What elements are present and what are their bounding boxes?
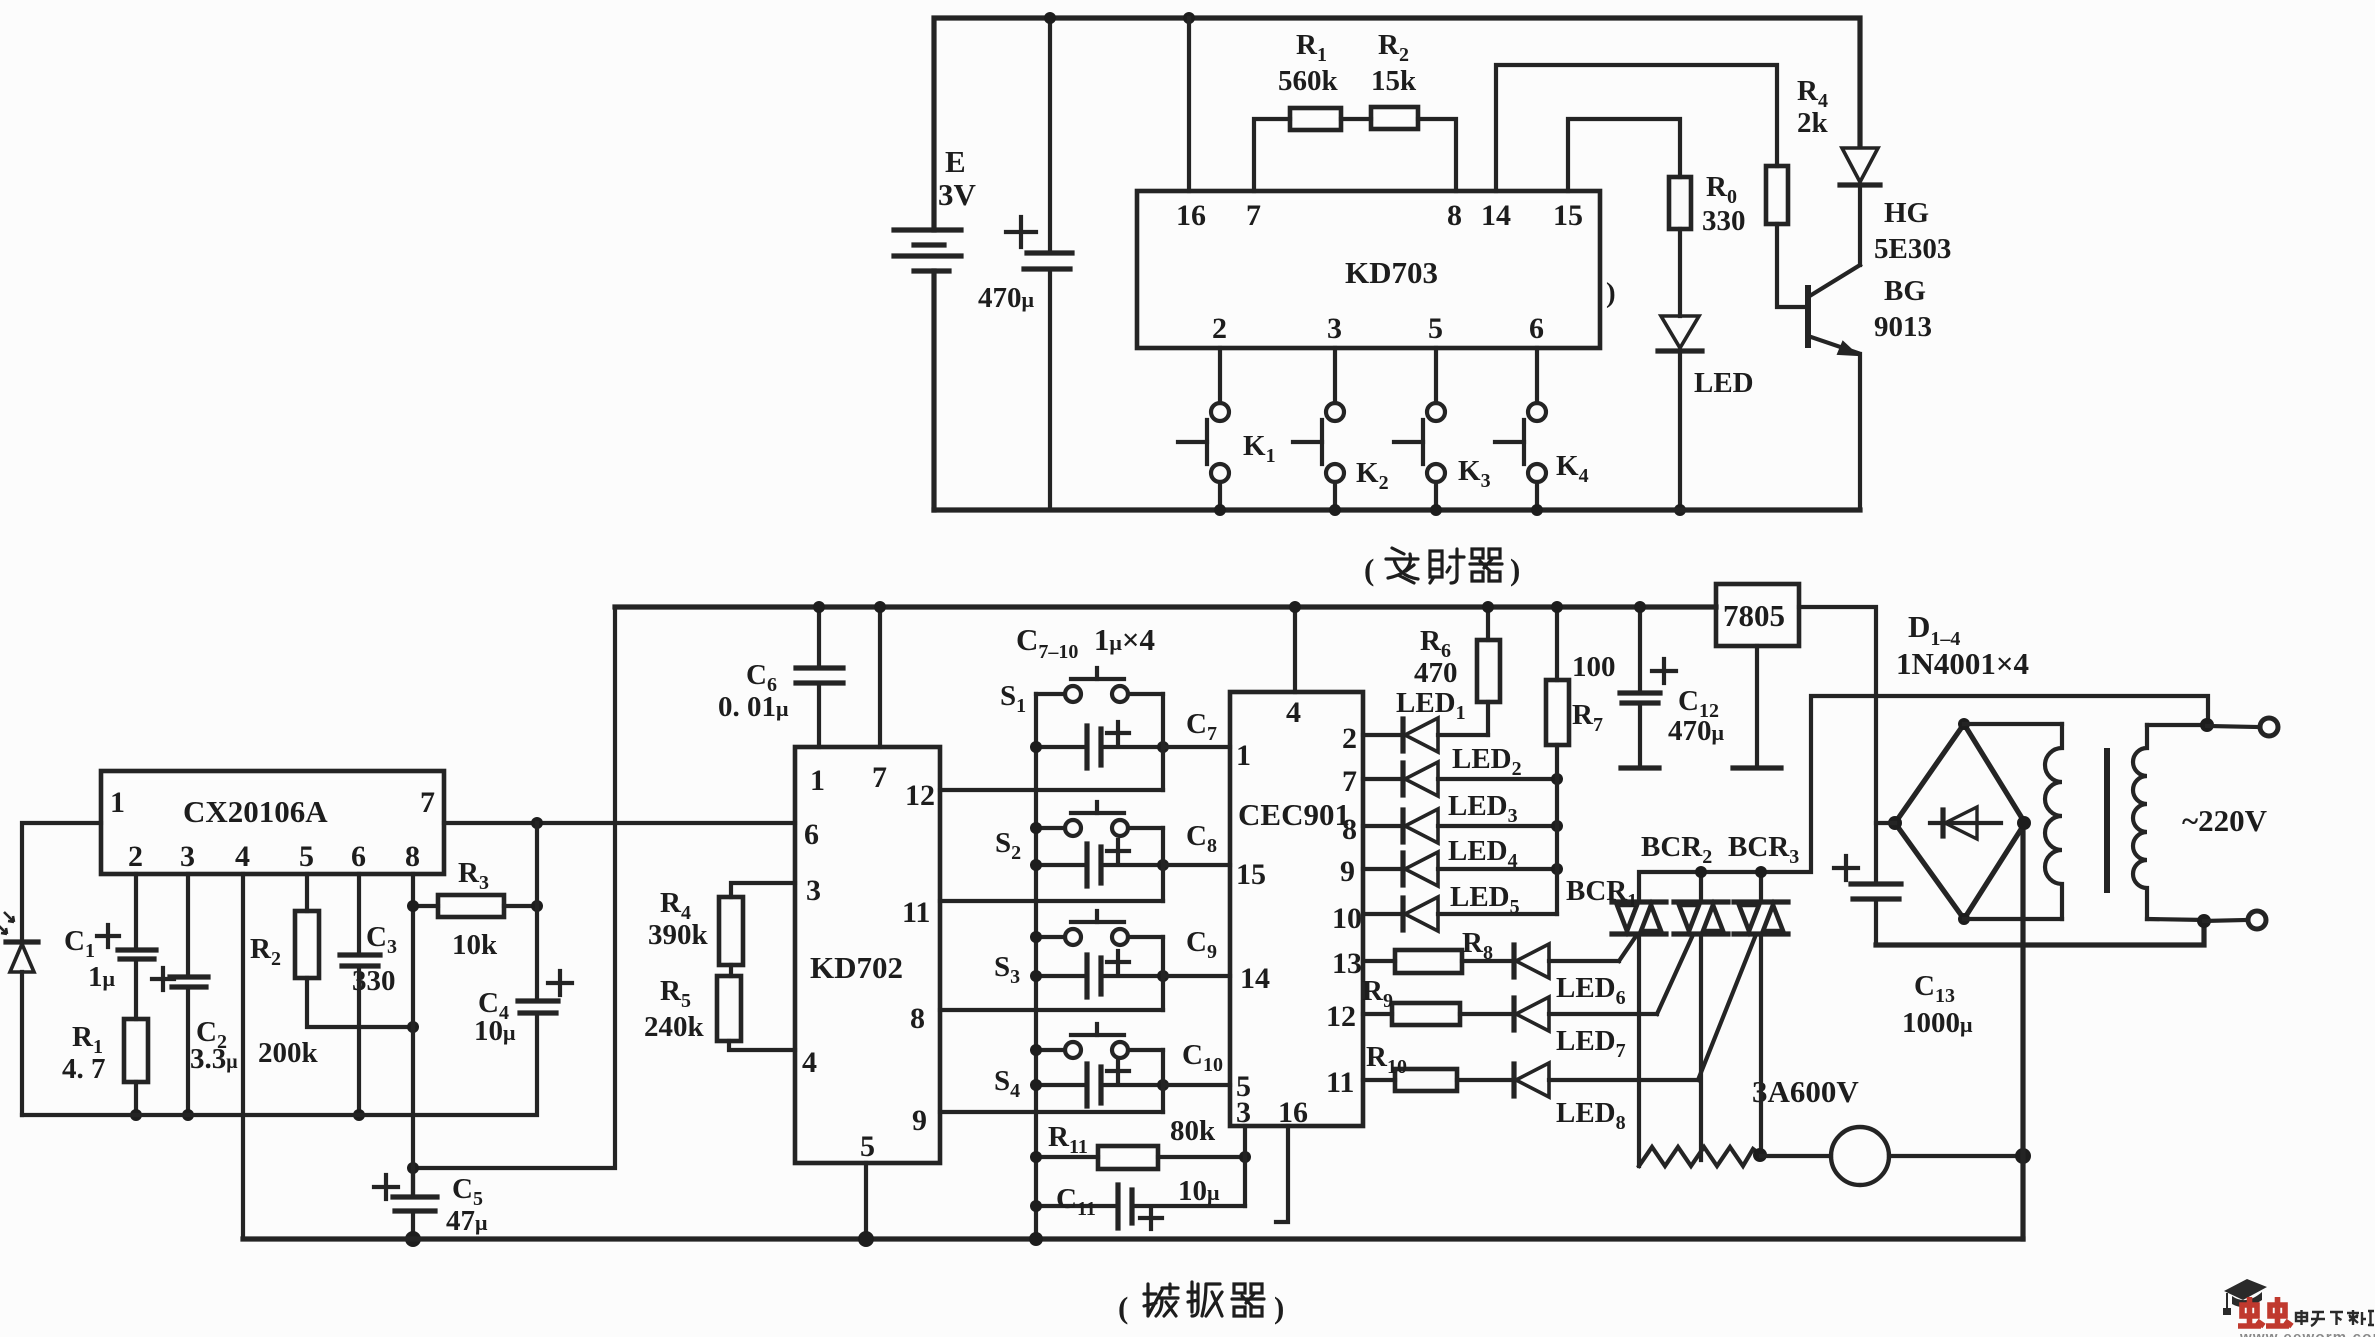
wire pin7 to KD702 pin6 <box>444 821 795 825</box>
node BCR3 top <box>1755 866 1767 878</box>
svg-text:10μ: 10μ <box>474 1015 516 1047</box>
svg-text:6: 6 <box>1529 312 1544 345</box>
diode LED4 <box>1363 835 1557 886</box>
node R11 right <box>1239 1151 1251 1163</box>
svg-text:470μ: 470μ <box>1668 715 1725 747</box>
wire KD702 pin7 up <box>878 607 882 747</box>
wire pin1 to photodiode <box>22 823 101 942</box>
node bridge top vertex <box>1958 718 1970 730</box>
wire KD702 pin5 down <box>864 1163 868 1238</box>
resistor R4 2k <box>1766 75 1829 224</box>
svg-text:9013: 9013 <box>1874 311 1932 343</box>
wire R5 to pin4 <box>729 1041 795 1050</box>
IC U4 CEC901 <box>1230 692 1363 1129</box>
resistor R2 15k <box>1371 29 1418 129</box>
svg-text:15: 15 <box>1553 199 1583 232</box>
svg-text:7: 7 <box>872 761 887 794</box>
resistor R8 <box>1363 927 1514 973</box>
wire to bottom AC terminal <box>2204 920 2246 921</box>
capacitor C6 0.01u <box>718 607 843 747</box>
capacitor C10 1u <box>1036 1039 1223 1106</box>
diode LED (transmitter indicator) <box>1658 316 1754 399</box>
svg-text:E: E <box>945 144 966 179</box>
wire emitter to bottom rail <box>1858 354 1862 510</box>
wire left vertical bus <box>413 607 615 1168</box>
svg-text:240k: 240k <box>644 1011 705 1043</box>
node bridge bottom vertex <box>1958 913 1970 925</box>
svg-text:12: 12 <box>905 779 935 812</box>
node pin7 branch <box>531 817 543 829</box>
watermark chongchong red characters <box>2238 1297 2292 1326</box>
transistor Q1 BG9013 <box>1808 265 1932 355</box>
svg-text:4. 7: 4. 7 <box>62 1053 106 1085</box>
node C11 left <box>1030 1200 1042 1212</box>
node K2 bottom <box>1329 504 1341 516</box>
svg-text:LED7: LED7 <box>1556 1025 1626 1062</box>
watermark text dianzi xiazaizhan <box>2296 1310 2374 1326</box>
svg-text:15k: 15k <box>1371 65 1417 97</box>
wire triac common top <box>1639 696 2208 902</box>
photodiode IR receiver <box>0 912 38 1115</box>
svg-text:560k: 560k <box>1278 65 1339 97</box>
wire secondary bottom to terminal <box>2147 919 2204 920</box>
wire S3 right node vertical <box>1161 937 1165 1010</box>
svg-text:LED2: LED2 <box>1452 743 1522 780</box>
node C9 left <box>1030 970 1042 982</box>
svg-text:www.eeworm.com: www.eeworm.com <box>2239 1329 2375 1337</box>
node C10 right <box>1157 1079 1169 1091</box>
svg-text:): ) <box>1510 552 1520 587</box>
wire BCR1 bottom to heater <box>1637 934 1641 1166</box>
bridge rectifier D1-4 diamond <box>1895 724 2025 919</box>
resistor R6 470 <box>1414 607 1500 735</box>
wire CEC901 pin4 up <box>1293 607 1297 692</box>
wire C9 to CEC901 <box>1163 974 1230 978</box>
capacitor C9 1u <box>1036 926 1217 997</box>
capacitor C12 470u <box>1620 607 1725 768</box>
node bridge left vertex <box>1888 816 1902 830</box>
wire LED to bottom rail <box>1678 351 1682 510</box>
svg-text:5E303: 5E303 <box>1874 233 1951 265</box>
regulator 7805 <box>1716 584 1799 768</box>
svg-text:1000μ: 1000μ <box>1902 1007 1973 1039</box>
node R2 to pin8 wire <box>407 1021 419 1033</box>
node pin5 bottom <box>858 1231 874 1247</box>
node C7 right <box>1157 741 1169 753</box>
svg-text:BCR3: BCR3 <box>1728 831 1799 868</box>
IC U2 CX20106A <box>101 771 444 874</box>
svg-text:200k: 200k <box>258 1037 319 1069</box>
svg-text:2: 2 <box>1212 312 1227 345</box>
wire main bottom rail <box>243 1236 2023 1241</box>
wire bridge top to primary <box>1964 722 2062 726</box>
node BCR2 top <box>1695 866 1707 878</box>
svg-text:(: ( <box>1364 552 1374 587</box>
svg-text:): ) <box>1274 1290 1284 1325</box>
node C7 left <box>1030 741 1042 753</box>
svg-text:11: 11 <box>902 896 930 929</box>
wire to top AC terminal <box>2207 726 2258 727</box>
wire pin8 vertical <box>411 874 415 1197</box>
node C9 right <box>1157 970 1169 982</box>
node S3 left <box>1030 931 1042 943</box>
svg-text:LED5: LED5 <box>1450 881 1520 918</box>
svg-text:5: 5 <box>299 840 314 873</box>
svg-text:C7–10 1μ×4: C7–10 1μ×4 <box>1016 622 1155 663</box>
wire C8 to CEC901 <box>1163 863 1230 867</box>
node C10 left <box>1030 1079 1042 1091</box>
svg-text:KD703: KD703 <box>1345 255 1438 290</box>
svg-text:8: 8 <box>1342 813 1357 846</box>
svg-text:): ) <box>1606 277 1616 309</box>
node LED2 to R7 bus <box>1551 773 1563 785</box>
capacitor C1 1u <box>64 874 156 1019</box>
switch K1 <box>1178 348 1276 510</box>
wire CEC901 pin3 vertical <box>1243 1126 1247 1206</box>
wire pin 15 to R0 <box>1568 119 1680 191</box>
wire C13 bottom run to AC terminal <box>1876 922 2204 945</box>
capacitor C5 47u <box>374 1168 488 1238</box>
node C3 to rail <box>353 1109 365 1121</box>
wire C10 to CEC901 <box>1163 1083 1230 1087</box>
resistor R5 240k <box>644 975 741 1043</box>
wire motor to neutral bus <box>1889 1154 2023 1158</box>
IC U3 KD702 <box>795 747 940 1163</box>
svg-text:1μ: 1μ <box>88 961 116 993</box>
svg-text:8: 8 <box>910 1002 925 1035</box>
node R1 to rail <box>130 1109 142 1121</box>
svg-text:5: 5 <box>860 1130 875 1163</box>
diode LED8 <box>1514 937 1755 1134</box>
svg-text:16: 16 <box>1278 1096 1308 1129</box>
node S2 left <box>1030 822 1042 834</box>
node pin7 top <box>874 601 886 613</box>
svg-text:13: 13 <box>1332 947 1362 980</box>
svg-text:470μ: 470μ <box>978 282 1035 314</box>
svg-text:14: 14 <box>1240 962 1270 995</box>
diode LED5 <box>1363 881 1557 931</box>
svg-text:330: 330 <box>1702 205 1746 237</box>
node AC terminal top junction <box>2200 718 2214 732</box>
resistor R0 330 <box>1669 171 1746 237</box>
wire R4-R5 link <box>729 965 733 976</box>
svg-text:7: 7 <box>420 786 435 819</box>
svg-text:3: 3 <box>1327 312 1342 345</box>
svg-text:3: 3 <box>1236 1096 1251 1129</box>
heater element zigzag <box>1639 1147 1761 1166</box>
resistor R10 <box>1363 1041 1514 1091</box>
svg-text:0. 01μ: 0. 01μ <box>718 691 789 723</box>
wire pin7 branch vertical to C4 <box>535 823 539 1001</box>
label (fa she qi) transmitter caption <box>1364 548 1520 587</box>
wire BCR2 bottom to heater <box>1699 934 1703 1160</box>
node C8 right <box>1157 859 1169 871</box>
svg-text:4: 4 <box>235 840 250 873</box>
wire HG cathode to collector <box>1858 185 1862 265</box>
wire pin 14 to R4 <box>1496 65 1777 191</box>
node C8 left <box>1030 859 1042 871</box>
node AC terminal bottom junction <box>2197 914 2211 928</box>
svg-text:3A600V: 3A600V <box>1752 1074 1859 1109</box>
capacitor C2 3.3u <box>152 874 238 1115</box>
svg-text:100: 100 <box>1572 651 1616 683</box>
diode LED1 <box>1363 687 1488 752</box>
svg-text:~220V: ~220V <box>2182 803 2268 838</box>
node heater right junction <box>1753 1148 1767 1162</box>
node K3 bottom <box>1430 504 1442 516</box>
wire pin 16 <box>1187 18 1191 191</box>
svg-text:2k: 2k <box>1797 107 1829 139</box>
node R11 left <box>1030 1151 1042 1163</box>
svg-text:6: 6 <box>804 818 819 851</box>
wire S2 right node vertical <box>1161 828 1165 901</box>
wire heater to motor <box>1761 1154 1831 1158</box>
switch S2 <box>995 802 1163 864</box>
wire pin3 to R4 <box>731 883 795 897</box>
capacitor C3 330 <box>340 874 397 1115</box>
svg-text:BCR2: BCR2 <box>1641 831 1712 868</box>
node C6 top <box>813 601 825 613</box>
svg-text:LED4: LED4 <box>1448 835 1518 872</box>
transformer secondary winding <box>2133 725 2147 919</box>
svg-text:1: 1 <box>1236 739 1251 772</box>
watermark logo graduation cap <box>2223 1279 2267 1315</box>
wire 7805 out to bridge <box>1799 607 1876 884</box>
svg-text:390k: 390k <box>648 919 709 951</box>
svg-text:LED1: LED1 <box>1396 687 1466 724</box>
diode HG 5E303 infrared <box>1840 148 1951 265</box>
wire C7 to CEC901 <box>1163 745 1230 749</box>
svg-text:2: 2 <box>128 840 143 873</box>
wire receiver top rail <box>615 604 1716 609</box>
wire pin 7 up <box>1254 119 1290 191</box>
node C2 to rail <box>182 1109 194 1121</box>
svg-text:47μ: 47μ <box>446 1205 488 1237</box>
svg-text:1: 1 <box>810 764 825 797</box>
svg-text:16: 16 <box>1176 199 1206 232</box>
wire S4 right node vertical <box>1161 1050 1165 1112</box>
node C12 top <box>1634 601 1646 613</box>
node top rail dot at C cap <box>1044 12 1056 24</box>
wire S-column left bus <box>1034 694 1038 1239</box>
switch K2 <box>1293 348 1389 510</box>
wire pin4 down to main bottom rail <box>241 874 245 1238</box>
svg-text:5: 5 <box>1428 312 1443 345</box>
wire S1 right node vertical <box>1161 694 1165 790</box>
node top rail dot at pin16 <box>1183 12 1195 24</box>
node bus to C5 junction <box>407 1162 419 1174</box>
svg-text:1: 1 <box>110 786 125 819</box>
wire battery to bottom rail <box>931 271 936 510</box>
motor M circle <box>1831 1127 1889 1185</box>
diode LED6 <box>1514 936 1636 1009</box>
svg-text:14: 14 <box>1481 199 1511 232</box>
svg-text:KD702: KD702 <box>810 950 903 985</box>
svg-text:8: 8 <box>1447 199 1462 232</box>
svg-text:BG: BG <box>1884 275 1926 307</box>
svg-text:9: 9 <box>912 1104 927 1137</box>
svg-text:LED6: LED6 <box>1556 972 1626 1009</box>
node C5 to bottom rail <box>405 1231 421 1247</box>
capacitor C4 10u <box>474 971 572 1047</box>
svg-text:LED: LED <box>1694 367 1754 399</box>
diode LED3 <box>1363 790 1557 843</box>
wire primary bottom to bridge bottom <box>1964 917 2062 921</box>
svg-text:11: 11 <box>1326 1066 1354 1099</box>
wire BCR3 top stub <box>1759 872 1763 902</box>
wire bridge left stub <box>1876 821 1895 825</box>
svg-text:10: 10 <box>1332 902 1362 935</box>
svg-text:7805: 7805 <box>1723 598 1785 633</box>
triac BCR3 <box>1728 831 1799 934</box>
node LED4 to R7 bus <box>1551 863 1563 875</box>
wire BCR2 top stub <box>1699 872 1703 902</box>
svg-text:CEC901: CEC901 <box>1238 797 1350 832</box>
resistor R2 200k <box>250 874 413 1069</box>
resistor R9 <box>1362 975 1514 1025</box>
wire secondary top to terminal <box>2147 723 2208 727</box>
node S-bus bottom <box>1029 1232 1043 1246</box>
resistor R11 80k <box>1036 1115 1245 1169</box>
diode LED7 <box>1514 937 1692 1062</box>
node R6 top <box>1482 601 1494 613</box>
svg-text:CX20106A: CX20106A <box>183 794 328 829</box>
svg-text:15: 15 <box>1236 858 1266 891</box>
svg-text:10μ: 10μ <box>1178 1175 1220 1207</box>
wire R4 to base <box>1777 224 1806 307</box>
switch S4 <box>994 1024 1163 1102</box>
wire KD702 output row y1112 <box>940 1110 1163 1114</box>
svg-text:12: 12 <box>1326 1000 1356 1033</box>
svg-text:470: 470 <box>1414 657 1458 689</box>
wire KD702 output row y790 <box>940 788 1163 792</box>
svg-text:(: ( <box>1118 1290 1128 1325</box>
triac BCR1 <box>1566 875 1666 934</box>
wire bridge right vertex vertical <box>2020 823 2025 1239</box>
svg-text:HG: HG <box>1884 197 1929 229</box>
node LED3 to R7 bus <box>1551 820 1563 832</box>
svg-text:LED8: LED8 <box>1556 1097 1626 1134</box>
switch S1 <box>1000 668 1163 717</box>
capacitor C7 1u <box>1036 708 1217 768</box>
capacitor C8 1u <box>1036 820 1217 886</box>
terminal AC bottom <box>2248 911 2266 929</box>
resistor R3 10k <box>413 857 537 961</box>
battery E 3V <box>894 144 977 271</box>
svg-text:1N4001×4: 1N4001×4 <box>1896 646 2029 681</box>
switch K3 <box>1394 348 1491 510</box>
transformer primary winding <box>2045 724 2062 919</box>
svg-text:8: 8 <box>405 840 420 873</box>
svg-text:4: 4 <box>802 1046 817 1079</box>
node K4 bottom <box>1531 504 1543 516</box>
wire BCR3 bottom to heater end <box>1759 934 1763 1155</box>
wire R2 to pin 8 <box>1418 119 1456 191</box>
node R3 right <box>531 900 543 912</box>
svg-text:3: 3 <box>180 840 195 873</box>
svg-text:10k: 10k <box>452 929 498 961</box>
svg-text:80k: 80k <box>1170 1115 1216 1147</box>
svg-text:9: 9 <box>1340 855 1355 888</box>
svg-text:3: 3 <box>806 874 821 907</box>
switch S3 <box>994 911 1163 988</box>
svg-text:3V: 3V <box>938 177 977 212</box>
svg-text:6: 6 <box>351 840 366 873</box>
svg-text:BCR1: BCR1 <box>1566 875 1637 912</box>
capacitor C13 1000u <box>1834 856 1973 1039</box>
svg-text:7: 7 <box>1342 765 1357 798</box>
resistor R1 4.7 <box>62 1019 148 1115</box>
IC U1 KD703 <box>1137 191 1600 348</box>
wire top rail (transmitter) <box>934 18 1860 230</box>
node LED bottom junction <box>1674 504 1686 516</box>
wire R0 to LED <box>1678 229 1682 316</box>
terminal AC top <box>2260 718 2278 736</box>
diode LED2 <box>1363 743 1557 796</box>
node bridge right vertex <box>2017 816 2031 830</box>
resistor R7 100 <box>1546 607 1616 914</box>
node S4 left <box>1030 1044 1042 1056</box>
svg-text:2: 2 <box>1342 722 1357 755</box>
label (jie shou qi) receiver caption <box>1118 1282 1284 1325</box>
resistor R4 390k (receiver) <box>648 887 743 965</box>
svg-text:4: 4 <box>1286 696 1301 729</box>
node K1 bottom <box>1214 504 1226 516</box>
wire CEC901 pin16 down <box>1276 1126 1288 1222</box>
wire KD702 output row y901 <box>940 899 1163 903</box>
node motor return <box>2015 1148 2031 1164</box>
wire bottom rail (transmitter) <box>934 507 1860 512</box>
resistor R1 560k <box>1278 29 1341 130</box>
wire ground rail (CX area) <box>22 1013 537 1115</box>
node R3 left <box>407 900 419 912</box>
node R7 top <box>1551 601 1563 613</box>
capacitor 470u (transmitter) <box>978 18 1072 510</box>
svg-text:7: 7 <box>1246 199 1261 232</box>
svg-text:LED3: LED3 <box>1448 790 1518 827</box>
switch K4 <box>1495 348 1589 510</box>
transformer core <box>2104 748 2110 893</box>
node pin4 top <box>1289 601 1301 613</box>
wire R1-R2 <box>1341 117 1371 121</box>
capacitor C11 10u <box>1036 1175 1245 1229</box>
wire KD702 output row y1010 <box>940 1008 1163 1012</box>
triac BCR2 <box>1641 831 1728 934</box>
